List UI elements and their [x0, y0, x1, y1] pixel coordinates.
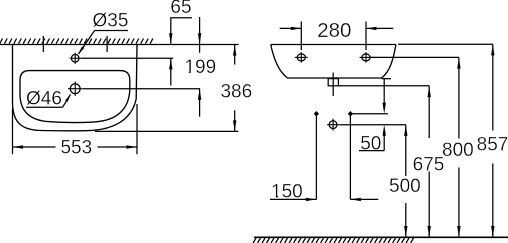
svg-text:675: 675	[413, 155, 445, 176]
supply height leader line	[350, 113, 388, 115]
wall hatch	[0, 39, 153, 44]
dimension 280 (between mounting holes)	[280, 19, 394, 50]
drain hole (top view)	[68, 82, 82, 96]
tap hole (top view)	[70, 53, 81, 64]
svg-text:800: 800	[442, 140, 474, 161]
svg-text:Ø46: Ø46	[26, 88, 62, 109]
svg-text:857: 857	[477, 135, 508, 156]
svg-text:65: 65	[170, 0, 191, 18]
basin inner bowl (top view)	[20, 71, 130, 123]
top edge extension line (to 857 dim)	[398, 43, 493, 45]
wall fixing tick right	[106, 36, 108, 52]
drain hole (front view)	[327, 119, 339, 131]
svg-text:500: 500	[389, 176, 421, 197]
floor line	[254, 236, 508, 238]
wall face line	[0, 44, 239, 46]
dimension 857 (floor to rim top)	[477, 44, 508, 237]
svg-text:Ø35: Ø35	[93, 11, 129, 32]
label Ø35 with leader arrow	[78, 11, 129, 55]
svg-text:50: 50	[360, 134, 381, 155]
drain hole leader line	[83, 88, 200, 90]
mounting-hole height leader line (to 800 dim)	[371, 56, 459, 58]
dimension 65 (wall to tap hole)	[169, 0, 192, 86]
basin profile (front view)	[271, 45, 396, 79]
supply pipe right	[348, 111, 353, 199]
basin outer outline (top view)	[13, 45, 138, 131]
basin front extension line	[95, 130, 238, 132]
svg-text:199: 199	[184, 57, 216, 78]
svg-text:280: 280	[317, 19, 351, 42]
dimension 553 (basin width)	[13, 104, 138, 159]
label Ø46 with underline and leader arrow	[26, 88, 71, 109]
mounting hole right (front view)	[360, 52, 373, 62]
trap height leader line (to 675 dim)	[338, 85, 429, 87]
svg-text:386: 386	[220, 81, 252, 102]
svg-text:553: 553	[60, 138, 92, 159]
mounting hole left (front view)	[295, 52, 308, 62]
trap / drain fitting (front view)	[328, 73, 338, 97]
dimension 500 (floor to drain hole)	[389, 125, 421, 237]
dimension 50 (supply to drain height)	[359, 79, 386, 155]
floor hatch	[253, 238, 413, 243]
dimension 386 (wall to basin front)	[220, 45, 252, 132]
drain height leader line (to 500 dim)	[339, 124, 406, 126]
tap hole leader line	[81, 57, 173, 59]
dimension 800 (floor to mounting holes)	[442, 58, 474, 237]
dimension 150 (between supply pipes)	[270, 182, 378, 203]
dimension 199 (wall to drain hole)	[184, 17, 216, 117]
wall fixing tick left	[42, 36, 44, 52]
dimension 675 (floor to trap)	[413, 86, 445, 237]
supply pipe left	[314, 111, 319, 199]
basin bottom edge extension	[382, 78, 391, 80]
